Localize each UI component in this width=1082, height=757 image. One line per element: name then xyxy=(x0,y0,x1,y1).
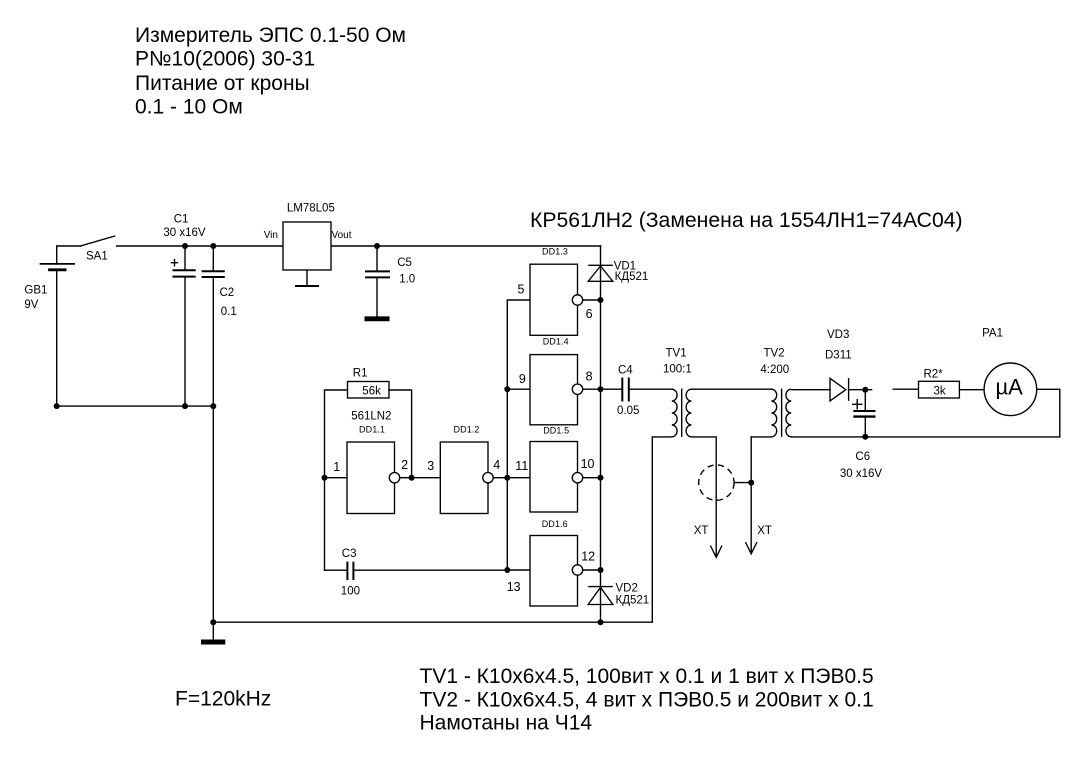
svg-text:C5: C5 xyxy=(397,257,412,269)
svg-text:3: 3 xyxy=(427,459,434,473)
wire R2 to PA1 xyxy=(959,389,984,391)
ground rail bottom xyxy=(213,621,652,623)
svg-text:Измеритель ЭПС 0.1-50 Ом: Измеритель ЭПС 0.1-50 Ом xyxy=(135,24,406,47)
svg-text:КР561ЛН2 (Заменена на 1554ЛН1=: КР561ЛН2 (Заменена на 1554ЛН1=74АС04) xyxy=(530,209,963,232)
battery GB1 xyxy=(24,246,75,406)
ground (regulator) xyxy=(295,270,319,286)
svg-text:9: 9 xyxy=(519,372,526,386)
svg-text:DD1.6: DD1.6 xyxy=(542,519,568,529)
capacitor C2 xyxy=(202,246,237,406)
probe XT left arrowhead xyxy=(710,546,722,558)
wire TV1 secondary top to TV2 xyxy=(691,388,771,390)
svg-text:100: 100 xyxy=(341,585,360,597)
svg-text:µA: µA xyxy=(996,375,1024,400)
svg-text:Vout: Vout xyxy=(332,230,352,241)
svg-text:R2*: R2* xyxy=(924,368,944,380)
node pin8/C4 junction xyxy=(598,386,604,392)
svg-text:TV1 - К10х6х4.5, 100вит х 0.1: TV1 - К10х6х4.5, 100вит х 0.1 и 1 вит х … xyxy=(420,665,874,688)
svg-text:12: 12 xyxy=(581,550,595,564)
transformer TV2 core xyxy=(781,389,783,437)
svg-text:DD1.1: DD1.1 xyxy=(359,425,385,435)
svg-text:1.0: 1.0 xyxy=(399,273,415,285)
op-amp DD1.1 inverter xyxy=(347,425,400,514)
wire VD3 to C6 node xyxy=(849,389,872,391)
wire output bottom rail xyxy=(791,389,1060,437)
wire TV2 primary bottom to probe xyxy=(750,437,752,553)
op-amp DD1.6 inverter xyxy=(530,519,583,606)
resistor R2* xyxy=(919,368,960,398)
capacitor C3 xyxy=(325,548,508,597)
capacitor C4 xyxy=(601,365,672,417)
svg-text:F=120kHz: F=120kHz xyxy=(175,688,271,711)
node pin2/R1 junction xyxy=(409,475,415,481)
wire R1 left branch xyxy=(325,390,348,570)
node probe junction xyxy=(748,480,754,486)
svg-text:GB1: GB1 xyxy=(24,284,47,296)
regulator U1 LM78L05 xyxy=(264,203,352,271)
wire probe to TV2 line xyxy=(734,482,751,484)
svg-text:VD2: VD2 xyxy=(616,583,638,595)
svg-text:PA1: PA1 xyxy=(982,328,1003,340)
svg-text:XT: XT xyxy=(757,525,772,537)
svg-text:C1: C1 xyxy=(174,213,189,225)
svg-text:C6: C6 xyxy=(855,451,870,463)
svg-text:6: 6 xyxy=(586,307,593,321)
node pin12/VD2 junction xyxy=(598,567,604,573)
meter PA1 xyxy=(982,328,1037,416)
svg-text:DD1.2: DD1.2 xyxy=(454,425,480,435)
svg-text:8: 8 xyxy=(586,369,593,383)
op-amp DD1.5 inverter xyxy=(530,426,583,513)
svg-text:C3: C3 xyxy=(342,548,357,560)
transformer TV2 primary winding xyxy=(771,389,776,437)
svg-text:КД521: КД521 xyxy=(615,271,649,283)
op-amp DD1.2 inverter xyxy=(440,425,493,514)
diode VD1 КД521 xyxy=(588,261,648,284)
node pin6/VD1 junction xyxy=(598,297,604,303)
svg-text:30 x16V: 30 x16V xyxy=(840,468,883,480)
svg-text:10: 10 xyxy=(581,457,595,471)
wire pin10 output xyxy=(583,477,601,479)
svg-text:DD1.4: DD1.4 xyxy=(543,337,569,347)
svg-text:4: 4 xyxy=(493,458,500,472)
node pin1/R1/C3 left junction xyxy=(322,475,328,481)
wire pin6 output xyxy=(583,299,601,301)
wire pin11 input xyxy=(507,477,530,479)
svg-text:P№10(2006) 30-31: P№10(2006) 30-31 xyxy=(135,47,315,70)
node C6 bottom junction xyxy=(862,434,868,440)
wire top rail xyxy=(185,245,601,247)
wire to DD1.2 input xyxy=(412,477,441,479)
node dots ground rail xyxy=(210,619,603,625)
wire TV1 secondary bottom to probe xyxy=(691,437,716,556)
svg-text:561LN2: 561LN2 xyxy=(351,410,391,422)
capacitor C6 xyxy=(840,390,883,481)
wire C6 node to R2 (with gap) xyxy=(893,388,918,390)
svg-text:30 x16V: 30 x16V xyxy=(163,227,206,239)
ground symbol (main) xyxy=(201,622,225,642)
svg-text:Vin: Vin xyxy=(264,230,278,241)
svg-text:DD1.5: DD1.5 xyxy=(543,426,569,436)
node bus junction pin9 xyxy=(504,386,510,392)
capacitor C5 xyxy=(365,246,415,316)
wire pin1 input xyxy=(325,477,348,479)
svg-text:TV1: TV1 xyxy=(666,347,687,359)
node VD3/C6 junction xyxy=(862,387,868,393)
svg-text:Намотаны на Ч14: Намотаны на Ч14 xyxy=(420,711,593,734)
svg-text:C2: C2 xyxy=(220,287,235,299)
transformer TV1 labels xyxy=(663,347,692,375)
svg-text:2: 2 xyxy=(401,458,408,472)
wire TV1 primary bottom to ground rail xyxy=(652,437,672,622)
node bus junction pin13/C3 xyxy=(504,567,510,573)
wire R1 right branch xyxy=(389,390,412,478)
resistor R1 xyxy=(348,368,390,398)
svg-text:D311: D311 xyxy=(825,349,852,361)
wire PA1 right xyxy=(1037,388,1060,390)
svg-text:9V: 9V xyxy=(24,299,38,311)
probe XT right arrowhead xyxy=(745,542,757,554)
wire pin13 input xyxy=(507,569,530,571)
transformer TV1 secondary winding xyxy=(686,389,691,437)
ground (C5 thick bar) xyxy=(365,316,390,321)
wire vertical output bus x600 xyxy=(600,246,602,622)
svg-text:C4: C4 xyxy=(618,365,633,377)
svg-text:LM78L05: LM78L05 xyxy=(287,203,335,215)
svg-text:VD3: VD3 xyxy=(827,329,849,341)
svg-text:56k: 56k xyxy=(362,385,381,397)
svg-text:Питание от кроны: Питание от кроны xyxy=(135,72,310,95)
transformer TV2 secondary winding xyxy=(786,389,791,437)
svg-text:0.05: 0.05 xyxy=(617,405,639,417)
svg-text:XT: XT xyxy=(694,525,709,537)
wire TV2 primary bottom corner xyxy=(751,436,771,438)
svg-text:11: 11 xyxy=(515,459,528,473)
diode VD3 D311 xyxy=(825,329,852,401)
node dots bottom-left rail xyxy=(54,403,217,409)
svg-text:1: 1 xyxy=(333,460,340,474)
node pin10 junction xyxy=(598,475,604,481)
wire pin4 output xyxy=(494,477,508,479)
wire pin2 output xyxy=(400,477,412,479)
title КР561ЛН2 xyxy=(530,209,963,232)
svg-text:SA1: SA1 xyxy=(86,251,108,263)
node junction dots top rail xyxy=(182,243,380,249)
capacitor C1 xyxy=(163,213,206,406)
transformer TV1 primary winding xyxy=(672,389,677,437)
svg-text:TV2: TV2 xyxy=(764,347,785,359)
switch SA1 xyxy=(57,236,185,263)
wire pin12 output xyxy=(583,569,601,571)
svg-text:13: 13 xyxy=(507,580,521,594)
transformer TV1 core xyxy=(681,389,683,437)
wire pin9 input xyxy=(507,388,530,390)
svg-text:3k: 3k xyxy=(934,386,946,398)
svg-text:0.1: 0.1 xyxy=(221,306,237,318)
svg-text:КД521: КД521 xyxy=(616,595,650,607)
wire feedback bus xyxy=(507,300,530,570)
wire C2 line down to ground rail xyxy=(212,406,214,622)
capacitor under test (dashed circle) xyxy=(699,465,734,500)
wire bottom-left rail xyxy=(57,405,214,407)
wire pin8 output xyxy=(583,388,601,390)
transformer TV2 labels xyxy=(760,347,789,376)
svg-text:DD1.3: DD1.3 xyxy=(542,247,568,257)
op-amp DD1.3 inverter xyxy=(530,247,583,336)
wire TV2 secondary top to VD3 xyxy=(791,389,830,391)
op-amp DD1.4 inverter xyxy=(530,337,583,425)
svg-text:100:1: 100:1 xyxy=(663,363,692,375)
node bus junction pin4/11 xyxy=(504,475,510,481)
svg-text:4:200: 4:200 xyxy=(760,364,789,376)
svg-text:0.1 - 10 Ом: 0.1 - 10 Ом xyxy=(135,95,243,118)
diode VD2 КД521 xyxy=(588,583,649,607)
svg-text:5: 5 xyxy=(518,283,525,297)
svg-text:R1: R1 xyxy=(353,368,368,380)
bottom notes text xyxy=(175,665,874,734)
header text block xyxy=(135,24,406,118)
svg-text:TV2 - К10х6х4.5, 4 вит х ПЭВ0.: TV2 - К10х6х4.5, 4 вит х ПЭВ0.5 и 200вит… xyxy=(420,689,874,712)
